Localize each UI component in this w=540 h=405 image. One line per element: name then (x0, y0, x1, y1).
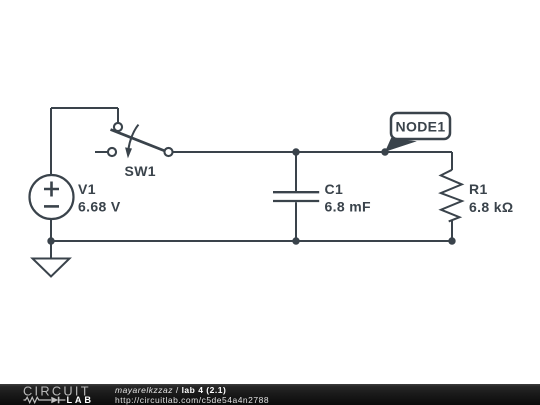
switch right throw terminal (164, 148, 172, 156)
wire bottom horizontal (51, 240, 452, 242)
wire top horizontal (switch to resistor) (172, 151, 452, 153)
svg-text:SW1: SW1 (125, 163, 156, 179)
switch actuation arrow (128, 125, 138, 150)
attribution text (115, 385, 226, 395)
junction node at capacitor bottom (292, 237, 299, 244)
junction node at V1 bottom (47, 237, 54, 244)
wire V1 bottom lead (50, 219, 52, 241)
wire ground lead (50, 241, 52, 259)
resistor R1 (441, 170, 462, 222)
switch SW1 (108, 123, 173, 158)
wire resistor top lead (451, 152, 453, 170)
wire resistor bottom lead (451, 220, 453, 242)
wire top-left vertical (50, 108, 52, 175)
svg-text:R1: R1 (469, 181, 488, 197)
junction node at resistor bottom (448, 237, 455, 244)
ground (33, 259, 70, 277)
node A (NODE1 attach point) (381, 148, 388, 155)
CircuitLab logo (0, 384, 100, 405)
svg-text:6.8 kΩ: 6.8 kΩ (469, 199, 513, 215)
svg-text:LAB: LAB (67, 395, 94, 405)
svg-text:6.68 V: 6.68 V (78, 199, 121, 215)
wire switch top lead (117, 108, 119, 123)
wire capacitor top lead (295, 152, 297, 191)
svg-text:C1: C1 (325, 181, 344, 197)
svg-text:NODE1: NODE1 (396, 119, 446, 135)
node NODE1 callout (385, 113, 450, 152)
svg-text:V1: V1 (78, 181, 96, 197)
wire switch left throw lead (95, 151, 108, 153)
voltage source V1 (30, 175, 74, 219)
switch left throw terminal (108, 148, 116, 156)
footer bar (0, 384, 540, 405)
junction node at capacitor top (292, 148, 299, 155)
switch blade (111, 130, 166, 152)
wire top-left horizontal (51, 107, 118, 109)
wire capacitor bottom lead (295, 202, 297, 241)
capacitor C1 (273, 192, 319, 201)
switch pole terminal (114, 123, 122, 131)
svg-text:6.8 mF: 6.8 mF (325, 199, 372, 215)
